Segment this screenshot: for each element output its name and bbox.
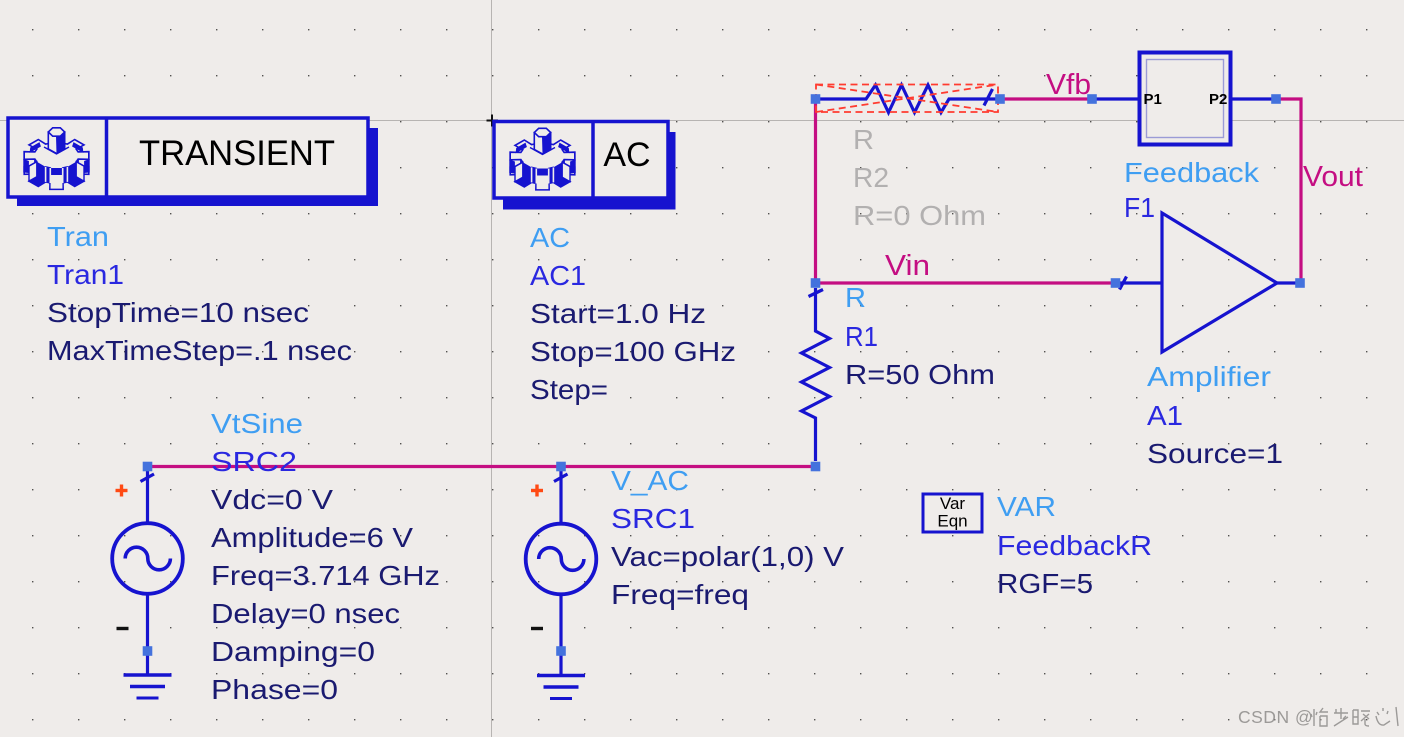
pin tick at amplifier input xyxy=(1120,277,1127,290)
wire: amplifier output to Vout node (blue) xyxy=(1277,281,1300,284)
svg-text:Feedback: Feedback xyxy=(1124,157,1260,188)
svg-text:R=50 Ohm: R=50 Ohm xyxy=(845,359,995,390)
page boundary horizontal line xyxy=(0,120,1404,122)
selection highlight box around R2 (red dashed with X) xyxy=(816,85,998,113)
svg-text:Start=1.0 Hz: Start=1.0 Hz xyxy=(530,298,706,329)
ground of SRC2 xyxy=(124,655,172,698)
svg-text:Damping=0: Damping=0 xyxy=(211,636,375,667)
node: R2 right / Vfb wire xyxy=(995,94,1005,104)
svg-text:Phase=0: Phase=0 xyxy=(211,674,338,705)
svg-text:AC: AC xyxy=(530,222,570,253)
minus sign of SRC2 xyxy=(117,627,129,630)
source SRC1 (V_AC) body xyxy=(526,469,597,647)
svg-text:VAR: VAR xyxy=(997,491,1056,522)
plus sign of SRC2 xyxy=(116,485,128,497)
svg-text:Vout: Vout xyxy=(1303,161,1363,193)
page boundary vertical line xyxy=(491,0,493,737)
svg-text:Freq=3.714 GHz: Freq=3.714 GHz xyxy=(211,560,440,591)
pin tick at R1 pin1 xyxy=(809,290,824,297)
wire Vfb net: R2 right to F1 P1 (magenta) xyxy=(1000,97,1092,100)
svg-text:F1: F1 xyxy=(1124,192,1155,223)
svg-text:Freq=freq: Freq=freq xyxy=(611,579,749,610)
svg-text:StopTime=10 nsec: StopTime=10 nsec xyxy=(47,297,309,328)
minus sign of SRC1 xyxy=(531,627,543,630)
svg-text:Var: Var xyxy=(940,494,966,513)
node: amplifier output / Vout xyxy=(1295,278,1305,288)
node: Vfb wire / F1 P1 xyxy=(1087,94,1097,104)
gear icon (TRANSIENT) xyxy=(23,128,89,190)
node: amplifier input xyxy=(1111,278,1121,288)
wire Vout net: F1 P2 corner to amplifier output (magenta) xyxy=(1276,99,1301,283)
wire: Vfb node to F1 P1 (blue) xyxy=(1092,97,1140,100)
svg-text:R=0 Ohm: R=0 Ohm xyxy=(853,200,986,231)
svg-text:Tran1: Tran1 xyxy=(47,259,124,290)
svg-text:Vac=polar(1,0) V: Vac=polar(1,0) V xyxy=(611,541,844,572)
feedback two-port F1: outer box xyxy=(1140,53,1231,145)
svg-text:R2: R2 xyxy=(853,162,889,193)
simulation controller AC: outer box xyxy=(494,122,668,199)
gear icon (AC) xyxy=(509,128,575,190)
node: R2 left / vertical wire junction xyxy=(811,94,821,104)
svg-text:Vin: Vin xyxy=(885,250,930,282)
svg-text:AC: AC xyxy=(603,136,650,174)
wire: F1 P2 to Vout node (blue) xyxy=(1229,97,1276,100)
wire Vin net: junction to amplifier input (magenta) xyxy=(816,281,1116,284)
resistor R1 body (zigzag, vertical) xyxy=(802,288,830,461)
pin tick at SRC2 plus pin xyxy=(141,474,155,482)
wire vertical: R2 left to Vin node (magenta) xyxy=(814,99,817,283)
node: Vin junction (R1 top) xyxy=(811,278,821,288)
svg-text:SRC2: SRC2 xyxy=(211,446,297,477)
simulation controller AC: drop shadow xyxy=(503,132,676,210)
page origin crosshair xyxy=(487,115,499,127)
svg-text:RGF=5: RGF=5 xyxy=(997,568,1093,599)
resistor R2 body (zigzag, horizontal) xyxy=(818,85,998,113)
svg-text:VtSine: VtSine xyxy=(211,408,303,439)
simulation controller TRANSIENT: drop shadow xyxy=(17,128,378,206)
plus sign of SRC1 xyxy=(531,485,543,497)
variable equation block VarEqn: box xyxy=(923,494,982,532)
svg-text:CSDN @: CSDN @ xyxy=(1238,707,1313,727)
svg-text:Eqn: Eqn xyxy=(937,512,967,531)
svg-text:R: R xyxy=(845,282,866,313)
amplifier A1 triangle symbol xyxy=(1162,213,1277,352)
svg-text:SRC1: SRC1 xyxy=(611,503,695,534)
node: SRC2 top xyxy=(143,462,153,472)
wire bottom net: SRC2 to R1 bottom (magenta) xyxy=(148,465,816,468)
pin tick at SRC1 plus pin xyxy=(554,474,568,482)
svg-text:Vdc=0 V: Vdc=0 V xyxy=(211,484,333,515)
svg-text:TRANSIENT: TRANSIENT xyxy=(139,133,335,173)
svg-text:V_AC: V_AC xyxy=(611,465,689,496)
node: SRC1 to ground xyxy=(556,646,566,656)
simulation controller TRANSIENT: icon/title divider xyxy=(105,118,109,197)
pin tick at R2 pin2 xyxy=(984,89,993,106)
svg-text:A1: A1 xyxy=(1147,400,1183,431)
node: SRC2 to ground xyxy=(143,646,153,656)
feedback two-port F1: inner box xyxy=(1147,60,1224,138)
ground of SRC1 xyxy=(537,655,585,699)
svg-text:R1: R1 xyxy=(845,321,878,352)
svg-text:Tran: Tran xyxy=(47,221,109,252)
svg-text:R: R xyxy=(853,124,874,155)
svg-text:P1: P1 xyxy=(1144,91,1162,108)
svg-text:Stop=100 GHz: Stop=100 GHz xyxy=(530,336,736,367)
svg-text:P2: P2 xyxy=(1209,91,1227,108)
svg-text:AC1: AC1 xyxy=(530,260,586,291)
source SRC2 (VtSine) body xyxy=(112,469,183,647)
svg-text:Amplifier: Amplifier xyxy=(1147,361,1271,392)
simulation controller TRANSIENT: outer box xyxy=(8,118,368,197)
svg-text:Step=: Step= xyxy=(530,374,608,405)
svg-text:Amplitude=6 V: Amplitude=6 V xyxy=(211,522,413,553)
svg-text:MaxTimeStep=.1 nsec: MaxTimeStep=.1 nsec xyxy=(47,335,352,366)
node: R1 bottom xyxy=(811,462,821,472)
svg-text:Vfb: Vfb xyxy=(1046,69,1091,101)
node: F1 P2 / Vout corner xyxy=(1271,94,1281,104)
svg-text:Delay=0 nsec: Delay=0 nsec xyxy=(211,598,400,629)
svg-text:Source=1: Source=1 xyxy=(1147,438,1283,469)
wire: Vin node to amplifier input (blue) xyxy=(1115,281,1162,284)
node: SRC1 top xyxy=(556,462,566,472)
svg-text:FeedbackR: FeedbackR xyxy=(997,530,1152,561)
simulation controller AC: icon/title divider xyxy=(591,122,595,199)
